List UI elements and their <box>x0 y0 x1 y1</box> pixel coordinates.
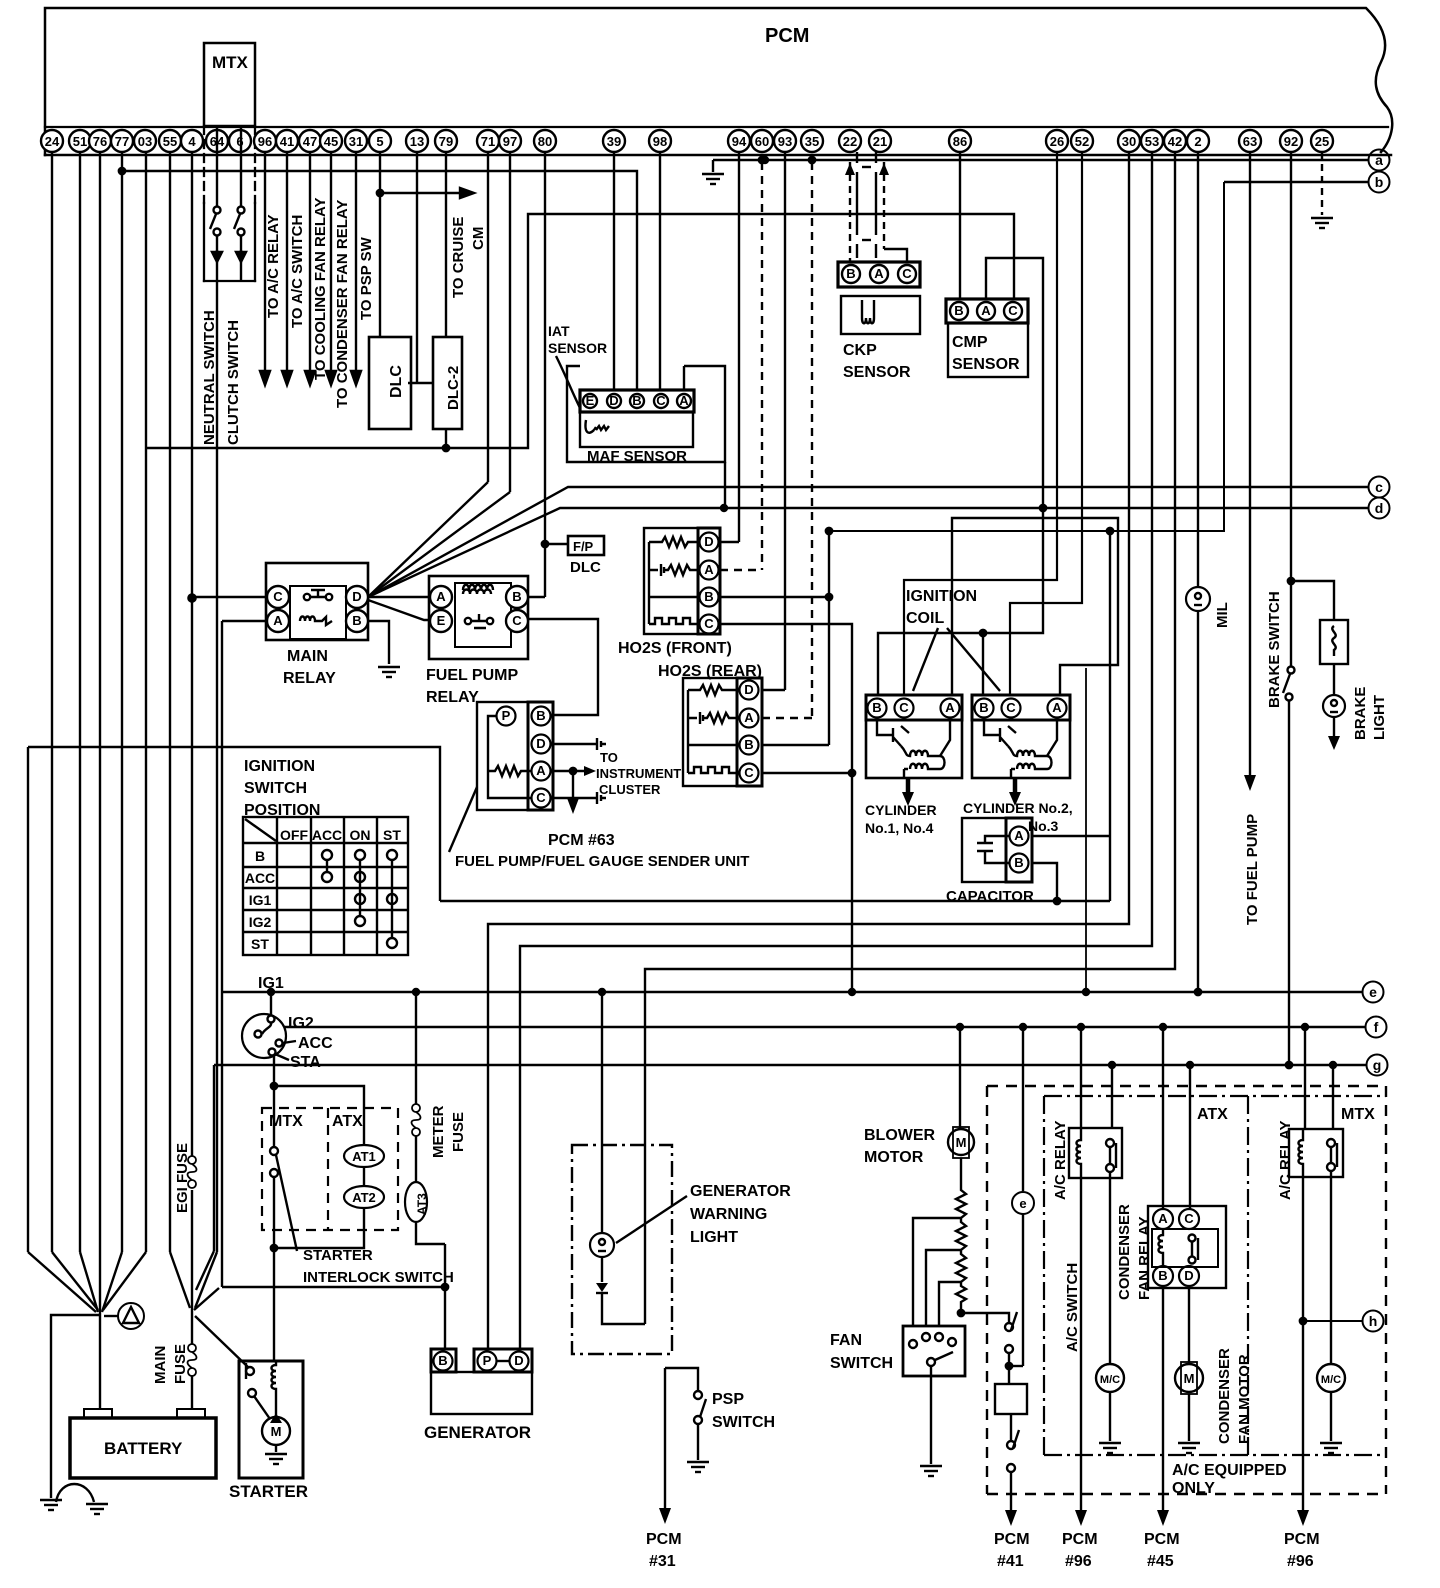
svg-text:f: f <box>1374 1019 1379 1035</box>
wire pin24 down <box>51 152 53 1252</box>
svg-text:A: A <box>679 393 689 408</box>
ground left <box>40 1500 62 1510</box>
svg-text:ONLY: ONLY <box>1172 1480 1215 1497</box>
svg-text:86: 86 <box>953 134 967 149</box>
wire pin64 neutral switch <box>216 126 218 207</box>
svg-text:PCM: PCM <box>994 1531 1030 1548</box>
node h <box>1363 1311 1384 1332</box>
wire pin93 to HO2S rear D <box>784 152 786 690</box>
wire pin35 dashed to HO2S rear A <box>811 162 813 718</box>
svg-text:DLC: DLC <box>570 559 601 576</box>
CKP shield channel <box>856 152 858 163</box>
brake light lamp <box>1323 695 1345 717</box>
node letter labels a-h <box>1369 152 1384 1329</box>
wire y747 <box>28 747 440 901</box>
svg-text:CONDENSER: CONDENSER <box>1116 1204 1133 1300</box>
wire main relay C feed <box>193 596 267 599</box>
svg-text:A: A <box>1158 1211 1168 1226</box>
svg-text:e: e <box>1019 1196 1026 1211</box>
fan switch <box>903 1326 965 1376</box>
svg-text:53: 53 <box>1145 134 1159 149</box>
svg-text:#41: #41 <box>997 1553 1024 1570</box>
MAF sensor connector <box>580 390 694 412</box>
node a <box>1369 150 1390 171</box>
svg-text:51: 51 <box>73 134 87 149</box>
svg-text:M/C: M/C <box>1100 1374 1120 1386</box>
svg-text:55: 55 <box>163 134 177 149</box>
svg-text:C: C <box>1008 303 1018 318</box>
ignition coil 2 <box>972 695 1070 778</box>
svg-text:35: 35 <box>805 134 819 149</box>
svg-text:39: 39 <box>607 134 621 149</box>
starter solenoid <box>272 1361 277 1395</box>
svg-text:SWITCH: SWITCH <box>830 1355 893 1372</box>
wire pin45 to condenser fan relay <box>330 152 332 371</box>
wire main relay D to fuel pump relay E <box>368 600 430 620</box>
svg-text:D: D <box>744 682 753 697</box>
svg-text:C: C <box>704 616 714 631</box>
svg-text:A: A <box>981 303 991 318</box>
wire pin41 to A/C switch <box>286 152 288 371</box>
wire pin52 to coil2 C <box>1010 152 1082 695</box>
svg-text:CM: CM <box>470 227 487 250</box>
svg-text:C: C <box>899 700 909 715</box>
funnel left branch to ground <box>51 1315 100 1498</box>
condenser fan motor <box>1175 1364 1203 1392</box>
svg-text:A/C EQUIPPED: A/C EQUIPPED <box>1172 1462 1287 1479</box>
svg-text:30: 30 <box>1122 134 1136 149</box>
svg-text:IAT: IAT <box>548 323 570 339</box>
svg-text:LIGHT: LIGHT <box>1371 695 1388 740</box>
F-P DLC box <box>568 536 604 555</box>
CKP sensor body <box>841 296 920 334</box>
wire starter interlock line <box>222 1286 445 1288</box>
ignition switch <box>242 1014 286 1058</box>
wire pin51 down <box>79 152 81 1252</box>
svg-text:NEUTRAL SWITCH: NEUTRAL SWITCH <box>201 310 218 445</box>
svg-text:C: C <box>1184 1211 1194 1226</box>
AT2 <box>344 1186 384 1208</box>
svg-text:ON: ON <box>350 827 371 843</box>
wire STA to interlock <box>273 1055 275 1151</box>
fuel pump relay U2 <box>429 576 528 659</box>
condenser fan relay <box>1162 1027 1164 1209</box>
wire capacitor A <box>1032 835 1110 837</box>
svg-text:IG1: IG1 <box>258 975 284 992</box>
HO2S front sensor <box>644 528 720 634</box>
wire pin39 to MAF D <box>613 152 615 390</box>
fuel pump sender unit <box>477 702 553 810</box>
svg-text:TO CRUISE: TO CRUISE <box>450 217 467 298</box>
svg-text:LIGHT: LIGHT <box>690 1229 738 1246</box>
svg-text:GENERATOR: GENERATOR <box>690 1183 791 1200</box>
svg-text:B: B <box>1158 1268 1167 1283</box>
neutral switch <box>214 207 221 214</box>
svg-text:C: C <box>656 393 666 408</box>
svg-text:IG2: IG2 <box>288 1015 314 1032</box>
wire f to e circle drop <box>1022 1027 1024 1191</box>
svg-text:C: C <box>536 790 546 805</box>
svg-text:A: A <box>945 700 955 715</box>
wire pin30 bus y924 to generator P <box>488 152 1129 1349</box>
MTX box (top) <box>204 43 255 126</box>
svg-text:DLC: DLC <box>388 365 405 398</box>
wire bus h <box>1302 1320 1362 1322</box>
funnel main fuse converging wires <box>170 1252 190 1308</box>
svg-text:P: P <box>502 708 511 723</box>
svg-text:CYLINDER No.2,: CYLINDER No.2, <box>963 800 1073 816</box>
svg-text:TO COOLING FAN RELAY: TO COOLING FAN RELAY <box>312 197 329 380</box>
svg-text:TO PSP SW: TO PSP SW <box>358 236 375 320</box>
svg-text:TO A/C SWITCH: TO A/C SWITCH <box>289 215 306 328</box>
svg-text:SWITCH: SWITCH <box>712 1414 775 1431</box>
label pointer STA <box>275 1054 289 1060</box>
node d <box>1369 498 1390 519</box>
wire fuel pump relay B <box>528 596 545 598</box>
svg-text:A: A <box>874 266 884 281</box>
svg-text:WARNING: WARNING <box>690 1206 767 1223</box>
wire shared B riser <box>828 531 830 745</box>
diode <box>596 1283 608 1292</box>
svg-text:A: A <box>436 589 446 604</box>
svg-text:13: 13 <box>410 134 424 149</box>
junction dots on bus d <box>721 505 727 511</box>
wire main relay A feed <box>222 620 267 622</box>
svg-text:F/P: F/P <box>573 539 594 554</box>
svg-text:HO2S (FRONT): HO2S (FRONT) <box>618 640 732 657</box>
svg-text:B: B <box>1014 855 1023 870</box>
svg-text:PCM: PCM <box>1284 1531 1320 1548</box>
svg-text:C: C <box>1006 700 1016 715</box>
svg-text:POSITION: POSITION <box>244 802 320 819</box>
wire HO2S rear B <box>762 744 829 746</box>
svg-text:FUSE: FUSE <box>450 1112 467 1152</box>
blower motor <box>959 1027 961 1129</box>
wire pin86 to CMP B <box>959 152 961 299</box>
svg-text:ACC: ACC <box>298 1035 333 1052</box>
svg-text:CLUSTER: CLUSTER <box>599 782 661 797</box>
svg-text:80: 80 <box>538 134 552 149</box>
wire bus y901 <box>440 900 1110 902</box>
wire sender A to instrument cluster <box>553 770 585 773</box>
svg-text:A/C RELAY: A/C RELAY <box>1052 1121 1069 1200</box>
wire bus a <box>713 159 1368 161</box>
wire pin80 <box>544 152 546 597</box>
MAF sensor enclosure <box>567 366 725 462</box>
svg-text:PCM: PCM <box>1062 1531 1098 1548</box>
wire pin60 dashed to HO2S front A <box>761 162 763 570</box>
svg-text:MTX: MTX <box>1341 1106 1375 1123</box>
svg-text:AT1: AT1 <box>352 1149 376 1164</box>
svg-text:47: 47 <box>303 134 317 149</box>
svg-text:B: B <box>536 708 545 723</box>
generator warning lamp <box>590 1233 614 1257</box>
wire b riser to HO2S <box>829 182 1224 531</box>
wire AT1 feed <box>274 1086 364 1145</box>
wire pin5 to DLC with cruise branch <box>379 152 381 337</box>
svg-text:EGI FUSE: EGI FUSE <box>174 1143 191 1213</box>
wire riser x1110 <box>1109 531 1111 901</box>
wire meter fuse branch <box>415 992 417 1104</box>
wire pin42 bus y969 to warning light <box>645 152 1175 1324</box>
ignition coil 1 <box>866 695 962 778</box>
svg-text:MTX: MTX <box>212 53 249 72</box>
svg-text:RELAY: RELAY <box>426 689 479 706</box>
ground pin25 <box>1311 218 1333 228</box>
HO2S rear sensor <box>683 678 762 786</box>
svg-text:03: 03 <box>138 134 152 149</box>
starter interlock switch MTX <box>270 1147 278 1155</box>
resistor tap 2 <box>926 1250 961 1326</box>
svg-text:E: E <box>586 393 595 408</box>
svg-text:e: e <box>1369 984 1377 1000</box>
svg-text:ST: ST <box>251 936 269 952</box>
svg-text:21: 21 <box>873 134 887 149</box>
node e <box>1363 982 1384 1003</box>
pointer to sender unit <box>449 787 477 852</box>
svg-text:C: C <box>273 589 283 604</box>
svg-text:A: A <box>273 613 283 628</box>
svg-text:A/C SWITCH: A/C SWITCH <box>1064 1263 1081 1352</box>
ignition switch position table <box>243 817 408 955</box>
svg-text:MOTOR: MOTOR <box>864 1149 924 1166</box>
svg-text:A: A <box>744 710 754 725</box>
svg-text:INTERLOCK SWITCH: INTERLOCK SWITCH <box>303 1269 454 1286</box>
wire bus b <box>1224 181 1368 183</box>
pointer generator warning light <box>616 1196 687 1243</box>
CMP sensor body <box>948 323 1028 377</box>
wire pin47 to cooling fan relay <box>309 152 311 371</box>
wire pin21 dashed to CKP C <box>883 162 885 249</box>
starter box <box>239 1361 303 1478</box>
wire MIL to bus e <box>1197 611 1199 992</box>
wire pin53 bus y946 to generator D <box>520 152 1152 1349</box>
AT1 <box>344 1145 384 1167</box>
svg-text:C: C <box>744 765 754 780</box>
svg-text:M: M <box>271 1424 282 1439</box>
svg-text:PCM: PCM <box>646 1531 682 1548</box>
svg-text:INSTRUMENT: INSTRUMENT <box>596 766 681 781</box>
svg-text:IG1: IG1 <box>249 892 272 908</box>
IAT sensor pointer <box>556 356 580 408</box>
noise suppressor symbol <box>104 1315 118 1317</box>
svg-text:METER: METER <box>430 1105 447 1158</box>
svg-text:CMP: CMP <box>952 334 988 351</box>
generator <box>431 1372 532 1414</box>
svg-text:A: A <box>536 763 546 778</box>
svg-text:PCM: PCM <box>1144 1531 1180 1548</box>
svg-text:92: 92 <box>1284 134 1298 149</box>
svg-text:B: B <box>352 613 361 628</box>
svg-text:ACC: ACC <box>245 870 275 886</box>
svg-text:#96: #96 <box>1287 1553 1314 1570</box>
wire pin22 dashed to CKP B <box>849 162 851 262</box>
svg-text:22: 22 <box>843 134 857 149</box>
wire pin26 to coil1 C <box>904 152 1057 695</box>
brake switch <box>1288 667 1295 674</box>
svg-text:26: 26 <box>1050 134 1064 149</box>
starter motor <box>262 1417 290 1445</box>
svg-text:IGNITION: IGNITION <box>244 758 315 775</box>
svg-text:FAN: FAN <box>830 1332 862 1349</box>
svg-text:77: 77 <box>115 134 129 149</box>
svg-text:CKP: CKP <box>843 342 877 359</box>
svg-text:GENERATOR: GENERATOR <box>424 1423 531 1442</box>
svg-text:M: M <box>1184 1371 1195 1386</box>
junction dots on bus g <box>1109 1062 1115 1068</box>
svg-text:4: 4 <box>188 134 196 149</box>
junction dots on bus f <box>957 1024 963 1030</box>
svg-text:97: 97 <box>503 134 517 149</box>
svg-text:C: C <box>902 266 912 281</box>
PCM box <box>45 8 1392 155</box>
wire coil A loop <box>952 518 1118 695</box>
svg-text:B: B <box>438 1353 447 1368</box>
wire pin76 down to battery <box>99 152 101 1409</box>
svg-text:31: 31 <box>349 134 363 149</box>
svg-text:SENSOR: SENSOR <box>952 356 1020 373</box>
svg-text:60: 60 <box>755 134 769 149</box>
svg-text:TO A/C RELAY: TO A/C RELAY <box>265 214 282 318</box>
node b <box>1369 172 1390 193</box>
wire warning light loop <box>602 1293 645 1324</box>
wire coil B loop from node d <box>878 508 1043 695</box>
spark output coil 2 <box>1013 778 1018 795</box>
A-C switch <box>1005 1323 1013 1331</box>
wire sender A to PCM 63 <box>572 771 574 800</box>
capacitor C1 <box>962 818 1032 882</box>
wire pin31 to PSP switch <box>355 152 357 371</box>
svg-text:D: D <box>704 534 713 549</box>
svg-text:25: 25 <box>1315 134 1329 149</box>
svg-text:A/C RELAY: A/C RELAY <box>1277 1121 1294 1200</box>
svg-text:C: C <box>512 613 522 628</box>
wire pin94 to HO2S front D <box>738 152 740 542</box>
wire HO2S front C <box>720 624 852 992</box>
svg-text:MTX: MTX <box>269 1113 303 1130</box>
svg-text:#96: #96 <box>1065 1553 1092 1570</box>
svg-text:24: 24 <box>45 134 60 149</box>
svg-text:41: 41 <box>280 134 294 149</box>
wire main relay B to ground <box>368 621 389 664</box>
svg-text:52: 52 <box>1075 134 1089 149</box>
M/C clutch right <box>1317 1364 1345 1392</box>
svg-text:PSP: PSP <box>712 1391 744 1408</box>
svg-text:AT2: AT2 <box>352 1190 376 1205</box>
wire pin92 to brake switch <box>1290 152 1292 666</box>
svg-text:No.1, No.4: No.1, No.4 <box>865 820 934 836</box>
resistor tap 3 <box>939 1282 961 1326</box>
wire to PCM 31 <box>664 1368 666 1508</box>
svg-text:SENSOR: SENSOR <box>843 364 911 381</box>
wire bus e (IG1) <box>222 991 1362 994</box>
wire pin2 to MIL <box>1197 152 1199 587</box>
interlock box dashed <box>262 1108 398 1230</box>
wire fuel pump relay C to sender B <box>528 619 598 715</box>
svg-text:B: B <box>979 700 988 715</box>
svg-text:COIL: COIL <box>906 610 944 627</box>
wire capacitor B <box>1032 863 1057 901</box>
svg-text:MIL: MIL <box>1214 602 1231 628</box>
node e repeat <box>1012 1192 1034 1214</box>
svg-text:IG2: IG2 <box>249 914 272 930</box>
wire warning light feed <box>601 992 603 1233</box>
svg-text:ACC: ACC <box>312 827 342 843</box>
svg-text:CAPACITOR: CAPACITOR <box>946 888 1034 905</box>
MAIN fuse <box>188 1344 197 1376</box>
svg-text:B: B <box>954 303 963 318</box>
svg-text:STARTER: STARTER <box>229 1482 308 1501</box>
PSP switch <box>665 1368 698 1391</box>
svg-text:PCM: PCM <box>765 25 809 47</box>
wire sender C to instrument cluster <box>553 797 597 799</box>
svg-text:A: A <box>1052 700 1062 715</box>
brake light fuse <box>1320 620 1348 664</box>
svg-text:93: 93 <box>778 134 792 149</box>
svg-text:RELAY: RELAY <box>283 670 336 687</box>
label pointer ACC <box>283 1041 296 1043</box>
svg-text:MAIN: MAIN <box>152 1346 169 1384</box>
svg-text:AT3: AT3 <box>415 1193 429 1215</box>
M/C clutch left <box>1096 1364 1124 1392</box>
wire resistor out <box>961 1313 1009 1323</box>
svg-text:B: B <box>704 589 713 604</box>
svg-text:ATX: ATX <box>1197 1106 1228 1123</box>
wire pin97 to relay fan <box>509 152 511 492</box>
DLC <box>369 337 411 429</box>
svg-text:STA: STA <box>290 1054 321 1071</box>
CMP sensor connector <box>946 299 1028 323</box>
wire riser x1086 <box>1085 668 1087 992</box>
svg-text:BRAKE SWITCH: BRAKE SWITCH <box>1266 591 1283 708</box>
svg-text:A: A <box>704 562 714 577</box>
svg-text:d: d <box>1375 500 1384 516</box>
svg-text:ST: ST <box>383 827 401 843</box>
svg-text:MAIN: MAIN <box>287 648 328 665</box>
svg-text:a: a <box>1375 152 1383 168</box>
svg-text:E: E <box>437 613 446 628</box>
EGI fuse <box>188 1156 197 1188</box>
svg-text:D: D <box>536 736 545 751</box>
wire pin4 down through EGI fuse and MAIN fuse <box>191 152 193 1156</box>
generator warning light box <box>572 1145 672 1354</box>
svg-text:D: D <box>609 393 618 408</box>
svg-text:SENSOR: SENSOR <box>548 340 607 356</box>
wire sender D to instrument cluster <box>553 743 597 745</box>
MAF sensor body <box>580 412 693 447</box>
svg-text:FUSE: FUSE <box>172 1344 189 1384</box>
node c <box>1369 477 1390 498</box>
svg-text:CLUTCH SWITCH: CLUTCH SWITCH <box>225 320 242 445</box>
svg-text:42: 42 <box>1168 134 1182 149</box>
svg-text:96: 96 <box>258 134 272 149</box>
svg-text:M/C: M/C <box>1321 1374 1341 1386</box>
svg-text:TO CONDENSER FAN RELAY: TO CONDENSER FAN RELAY <box>334 200 351 408</box>
svg-text:h: h <box>1369 1313 1378 1329</box>
wire HO2S front B <box>720 596 829 598</box>
svg-text:76: 76 <box>93 134 107 149</box>
wire STA bus drop <box>213 1065 215 1251</box>
svg-text:P: P <box>483 1353 492 1368</box>
svg-text:B: B <box>512 589 521 604</box>
wire bus f (IG2) <box>284 1026 1365 1029</box>
svg-text:b: b <box>1375 174 1384 190</box>
svg-text:FUEL PUMP/FUEL GAUGE SENDER UN: FUEL PUMP/FUEL GAUGE SENDER UNIT <box>455 853 749 870</box>
svg-text:OFF: OFF <box>280 827 308 843</box>
svg-text:5: 5 <box>376 134 383 149</box>
svg-text:2: 2 <box>1194 134 1201 149</box>
svg-text:B: B <box>632 393 641 408</box>
